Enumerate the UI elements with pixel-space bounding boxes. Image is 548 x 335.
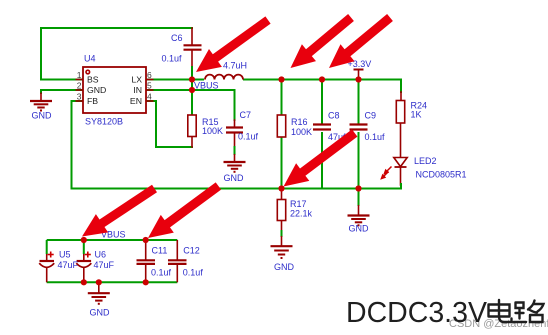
capacitor C11 <box>137 259 156 261</box>
resistor R16 <box>277 115 285 137</box>
junction VBUS node <box>189 87 195 93</box>
svg-text:VBUS: VBUS <box>194 81 219 91</box>
svg-text:100K: 100K <box>202 126 223 136</box>
svg-text:SY8120B: SY8120B <box>85 117 123 127</box>
wire FB to bottom rail <box>72 101 84 189</box>
annotation arrow A5 <box>148 182 221 238</box>
annotation arrow A3 <box>329 14 393 68</box>
svg-text:EN: EN <box>130 96 142 106</box>
svg-text:BS: BS <box>87 75 99 85</box>
U4 pin1 marker dot <box>86 70 90 74</box>
svg-text:C8: C8 <box>328 111 340 121</box>
svg-text:U5: U5 <box>59 250 71 260</box>
junction C8 top <box>319 76 325 82</box>
wire bottom rail <box>72 184 402 189</box>
ground R17 GND <box>281 236 283 246</box>
junction R17 node <box>278 185 284 191</box>
wire C8 column bottom <box>321 133 323 189</box>
wire bottom block bottom rail <box>47 281 178 283</box>
svg-text:LX: LX <box>131 75 142 85</box>
svg-text:FB: FB <box>87 96 98 106</box>
op-amp U4 body SY8120B <box>83 67 146 113</box>
LED2 emission arrow 1 <box>386 167 392 173</box>
pin 2 stub <box>76 89 84 91</box>
svg-text:GND: GND <box>274 262 295 272</box>
svg-text:GND: GND <box>90 308 111 318</box>
resistor R17 <box>277 200 285 221</box>
capacitor C9 <box>350 123 368 125</box>
annotation arrow A2 <box>291 14 354 68</box>
svg-text:LED2: LED2 <box>414 156 437 166</box>
wire R24 branch <box>400 80 402 93</box>
capacitor U5 polarized <box>40 260 55 262</box>
wire C6 lower lead <box>191 50 193 67</box>
svg-text:0.1uf: 0.1uf <box>238 132 259 142</box>
annotation arrow A4 <box>82 185 157 237</box>
wire IN VBUS rail <box>146 90 235 120</box>
svg-text:0.1uf: 0.1uf <box>183 267 204 277</box>
junction R16 top <box>278 76 284 82</box>
junction C9 bottom <box>355 185 361 191</box>
svg-text:R16: R16 <box>291 117 308 127</box>
svg-text:C6: C6 <box>171 33 183 43</box>
svg-text:GND: GND <box>224 173 245 183</box>
svg-text:C9: C9 <box>365 111 377 121</box>
capacitor U6 polarized <box>77 260 92 262</box>
svg-text:U6: U6 <box>95 250 107 260</box>
power port +3.3V <box>358 70 360 80</box>
junction U6 bottom <box>81 279 87 285</box>
svg-text:47uF: 47uF <box>94 260 115 270</box>
svg-text:2: 2 <box>77 81 82 91</box>
capacitor C12 <box>168 259 187 261</box>
junction U6 top <box>81 237 87 243</box>
wire C7 lower lead <box>234 133 236 148</box>
svg-text:GND: GND <box>32 111 53 121</box>
svg-text:IN: IN <box>133 85 142 95</box>
wire R24 bottom to LED top <box>400 123 402 158</box>
ground C9 GND <box>358 205 360 215</box>
junction LX node <box>189 76 195 82</box>
svg-text:0.1uf: 0.1uf <box>365 132 386 142</box>
wire EN to R15 bottom <box>146 101 192 147</box>
svg-text:22.1k: 22.1k <box>290 209 313 219</box>
svg-text:1K: 1K <box>411 110 422 120</box>
ground C7 GND <box>234 154 236 162</box>
junction C11 top <box>143 237 149 243</box>
svg-text:5: 5 <box>147 81 152 91</box>
wire C12 column <box>176 240 178 260</box>
resistor R24 <box>396 101 404 124</box>
wire C6 vertical <box>191 28 193 45</box>
wire C8 column top <box>321 80 323 125</box>
wire R17 bottom lead <box>281 221 283 232</box>
capacitor C8 <box>313 123 331 125</box>
wire BS top loop <box>41 28 192 80</box>
wire R16 column <box>281 80 283 116</box>
wire R17 to ground <box>281 231 283 236</box>
wire C11 column <box>145 240 147 260</box>
title hanzi dian <box>489 300 512 322</box>
svg-text:4: 4 <box>147 92 152 102</box>
junction +3.3V node <box>355 76 361 82</box>
junction GND stem bottom <box>96 279 102 285</box>
svg-text:GND: GND <box>349 224 370 234</box>
junction C11 bottom <box>143 279 149 285</box>
wire C9 column top <box>358 80 360 125</box>
svg-text:C7: C7 <box>240 110 252 120</box>
annotation arrow A1 <box>196 16 271 72</box>
wire R15 bottom lead <box>191 137 193 148</box>
svg-text:NCD0805R1: NCD0805R1 <box>416 170 467 180</box>
ground pin2 GND <box>40 93 42 101</box>
wire C9 to GND stem <box>358 189 360 206</box>
ground bottom block GND <box>88 292 110 294</box>
wire C7 upper lead <box>234 120 236 128</box>
wire LX to junction <box>146 79 203 81</box>
svg-text:C12: C12 <box>183 246 200 256</box>
resistor R15 <box>188 115 196 137</box>
svg-text:0.1uf: 0.1uf <box>162 54 183 64</box>
wire GND pin2 <box>41 90 83 93</box>
inductor L 4.7uH <box>205 75 243 80</box>
wire C7 to ground <box>234 147 236 154</box>
wire bottom block top rail VBUS <box>47 239 178 241</box>
svg-text:3: 3 <box>77 92 82 102</box>
wire C9 column bottom <box>358 133 360 189</box>
svg-text:100K: 100K <box>291 127 312 137</box>
pin 5 stub <box>146 89 154 91</box>
svg-text:C11: C11 <box>152 246 168 256</box>
wire U5 column <box>46 240 48 254</box>
wire LX junction to VBUS junction <box>191 80 193 91</box>
wire U6 column <box>83 240 85 254</box>
pin 6 stub <box>146 79 154 81</box>
capacitor C7 <box>226 126 243 128</box>
title hanzi lu <box>514 301 544 323</box>
svg-text:U4: U4 <box>84 54 96 64</box>
pin 1 stub <box>76 79 84 81</box>
pin 4 stub <box>146 100 154 102</box>
pin 3 stub <box>76 100 84 102</box>
svg-text:1: 1 <box>77 70 82 80</box>
wire R17 top lead <box>281 189 283 200</box>
wire R15 column <box>191 90 193 115</box>
svg-text:47uF: 47uF <box>58 260 79 270</box>
svg-text:4.7uH: 4.7uH <box>223 61 247 71</box>
svg-text:0.1uf: 0.1uf <box>151 267 172 277</box>
svg-text:R17: R17 <box>290 199 307 209</box>
annotation arrow A6 <box>284 129 358 186</box>
svg-text:DCDC3.3V: DCDC3.3V <box>346 297 487 329</box>
wire top rail inductor to R24 <box>244 79 401 81</box>
wire GND stem bottom block <box>98 282 100 293</box>
svg-text:6: 6 <box>147 70 152 80</box>
capacitor C6 <box>184 44 202 46</box>
wire R16 bottom to rail <box>281 137 283 189</box>
LED2 emission arrow 2 <box>383 172 389 178</box>
wire LED bottom lead <box>400 167 402 185</box>
svg-text:GND: GND <box>87 85 106 95</box>
LED2 diode symbol <box>394 158 407 167</box>
wire R24 to LED lead <box>400 92 402 101</box>
